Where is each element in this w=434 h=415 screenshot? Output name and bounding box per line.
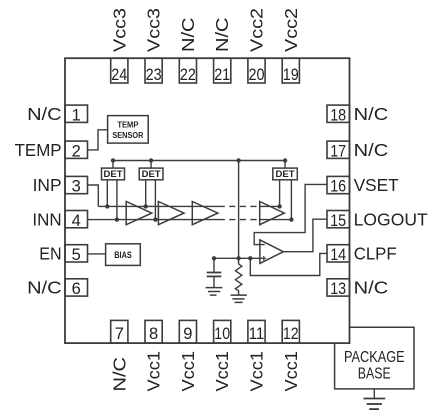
- svg-text:15: 15: [330, 212, 346, 230]
- ground (resistor): [231, 295, 247, 302]
- amplifier A4 (final): [260, 202, 285, 225]
- svg-text:VSET: VSET: [354, 175, 399, 195]
- svg-text:9: 9: [183, 325, 192, 343]
- svg-text:2: 2: [72, 142, 81, 160]
- svg-text:6: 6: [72, 280, 81, 298]
- svg-text:Vcc2: Vcc2: [281, 8, 301, 52]
- svg-text:1: 1: [72, 106, 81, 124]
- pin 12: [282, 320, 299, 343]
- op-amp + input mark: [261, 256, 266, 261]
- svg-text:SENSOR: SENSOR: [112, 130, 144, 140]
- DET2 input taps: [146, 180, 156, 220]
- DET1 top stub: [112, 161, 114, 169]
- svg-text:18: 18: [330, 106, 346, 124]
- pin 19 label Vcc2: [281, 8, 301, 52]
- svg-text:8: 8: [149, 325, 158, 343]
- pin 4: [65, 211, 88, 230]
- pin 13: [327, 279, 350, 298]
- svg-text:LOGOUT: LOGOUT: [354, 209, 428, 229]
- pin 6: [65, 279, 88, 298]
- pin 16: [327, 176, 350, 195]
- svg-text:DET: DET: [104, 169, 123, 180]
- summing node vertical wire: [238, 161, 240, 259]
- pin 10: [214, 320, 231, 343]
- RC node wire to op-amp + input: [214, 257, 262, 259]
- pin 9: [179, 320, 196, 343]
- pin 19: [282, 58, 299, 84]
- svg-text:Vcc1: Vcc1: [247, 351, 267, 392]
- pin 7 label N-C: [109, 357, 129, 392]
- pin 18: [327, 105, 350, 124]
- pin 5: [65, 245, 88, 264]
- svg-text:N/C: N/C: [178, 18, 198, 53]
- svg-text:EN: EN: [39, 244, 61, 264]
- pin 7: [111, 320, 128, 343]
- wire pin2 to temp sensor: [88, 130, 108, 150]
- lower rail into final amp: [260, 219, 292, 221]
- svg-text:BIAS: BIAS: [114, 250, 132, 260]
- DET2 top stub: [150, 161, 152, 169]
- svg-text:PACKAGE: PACKAGE: [344, 349, 405, 366]
- svg-text:4: 4: [72, 212, 81, 230]
- svg-text:7: 7: [115, 325, 124, 343]
- capacitor C: [207, 258, 222, 287]
- pin 12 label Vcc1: [281, 351, 301, 392]
- DET3 input taps: [280, 180, 292, 220]
- DET1 input taps: [107, 180, 117, 220]
- pin 21: [214, 58, 231, 84]
- wire VSET pin16 to op-amp inverting input: [254, 184, 327, 244]
- svg-text:20: 20: [249, 66, 265, 84]
- upper rail into final amp: [260, 205, 280, 207]
- svg-text:Vcc1: Vcc1: [212, 351, 232, 392]
- pin 17: [327, 141, 350, 160]
- pin 20 label Vcc2: [247, 8, 267, 52]
- package base block: [335, 327, 414, 389]
- pin 15: [327, 211, 350, 230]
- pin 11: [248, 320, 265, 343]
- svg-text:22: 22: [180, 66, 196, 84]
- pin 22 label N-C: [178, 18, 198, 53]
- resistor R: [235, 258, 241, 294]
- junction dots on summing rail: [111, 158, 115, 162]
- svg-text:Vcc1: Vcc1: [144, 351, 164, 392]
- svg-text:INN: INN: [32, 209, 61, 229]
- svg-text:5: 5: [72, 246, 81, 264]
- detector DET3 (final): [273, 168, 298, 180]
- pin 21 label N-C: [212, 18, 232, 53]
- svg-text:21: 21: [214, 66, 230, 84]
- svg-text:3: 3: [72, 178, 81, 196]
- wire pin4 INN / lower signal rail: [88, 219, 219, 221]
- upper rail dashed (omitted stages): [219, 205, 260, 207]
- detector DET1: [102, 168, 125, 180]
- svg-text:19: 19: [283, 66, 299, 84]
- pin 24: [111, 58, 128, 84]
- svg-text:DET: DET: [142, 169, 161, 180]
- upper signal rail: [98, 205, 218, 207]
- ground (capacitor): [206, 288, 223, 296]
- svg-text:BASE: BASE: [358, 365, 391, 382]
- pin 24 label Vcc3: [109, 8, 129, 52]
- detector DET2: [139, 168, 163, 180]
- node dots on RC wire: [212, 256, 216, 260]
- svg-text:N/C: N/C: [354, 104, 389, 124]
- svg-text:N/C: N/C: [354, 278, 389, 298]
- pin 23: [145, 58, 162, 84]
- pin 8 label Vcc1: [144, 351, 164, 392]
- svg-text:INP: INP: [33, 175, 62, 195]
- svg-text:Vcc3: Vcc3: [144, 8, 164, 52]
- svg-text:TEMP: TEMP: [15, 140, 62, 160]
- svg-text:16: 16: [330, 178, 346, 196]
- svg-text:N/C: N/C: [27, 278, 62, 298]
- temp sensor block: [108, 116, 149, 144]
- svg-text:12: 12: [283, 325, 299, 343]
- svg-text:Vcc1: Vcc1: [178, 351, 198, 392]
- svg-text:N/C: N/C: [354, 140, 389, 160]
- pin 22: [179, 58, 196, 84]
- wire pin3 INP to upper rail: [88, 185, 99, 206]
- pin 20: [248, 58, 265, 84]
- svg-text:DET: DET: [276, 169, 295, 180]
- pin 14: [327, 245, 350, 264]
- IC package outline: [65, 58, 350, 343]
- svg-text:TEMP: TEMP: [117, 119, 138, 129]
- svg-text:23: 23: [146, 66, 162, 84]
- amplifier A2: [158, 202, 184, 225]
- pin 10 label Vcc1: [212, 351, 232, 392]
- amplifier A3: [192, 202, 218, 225]
- op-amp U1 (log output buffer): [260, 240, 284, 264]
- svg-text:13: 13: [330, 280, 346, 298]
- svg-text:Vcc2: Vcc2: [247, 8, 267, 52]
- pin 8: [145, 320, 162, 343]
- pin 1: [65, 105, 88, 124]
- svg-text:N/C: N/C: [212, 18, 232, 53]
- wire op-amp output to LOGOUT pin15: [283, 219, 327, 252]
- bias block: [106, 244, 141, 266]
- lower rail dashed (omitted stages): [219, 219, 260, 221]
- svg-text:Vcc1: Vcc1: [281, 351, 301, 392]
- ground (package base): [363, 389, 385, 409]
- pin 9 label Vcc1: [178, 351, 198, 392]
- svg-text:11: 11: [249, 325, 265, 343]
- DET3 top stub: [284, 161, 286, 169]
- amplifier A1: [126, 202, 152, 225]
- detector summing rail (top): [113, 160, 285, 162]
- pin 2: [65, 141, 88, 160]
- pin 11 label Vcc1: [247, 351, 267, 392]
- wire pin5 to bias: [88, 253, 106, 255]
- svg-text:14: 14: [330, 246, 346, 264]
- pin 3: [65, 176, 88, 195]
- svg-text:CLPF: CLPF: [354, 244, 397, 264]
- svg-text:N/C: N/C: [109, 357, 129, 392]
- pin 23 label Vcc3: [144, 8, 164, 52]
- svg-text:Vcc3: Vcc3: [109, 8, 129, 52]
- wire CLPF pin14 to + input node: [250, 253, 327, 275]
- svg-text:N/C: N/C: [27, 104, 62, 124]
- svg-text:10: 10: [214, 325, 230, 343]
- svg-text:17: 17: [330, 142, 346, 160]
- svg-text:24: 24: [111, 66, 127, 84]
